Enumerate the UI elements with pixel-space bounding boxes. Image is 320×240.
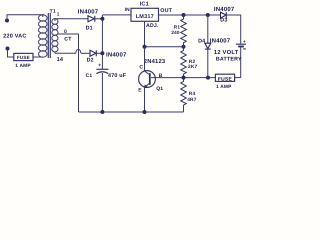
node [182, 76, 186, 80]
node [206, 13, 210, 17]
svg-text:ADJ.: ADJ. [146, 23, 159, 29]
diode D1 [78, 9, 103, 32]
wire [33, 56, 43, 58]
svg-text:1 AMP: 1 AMP [216, 84, 232, 90]
capacitor C1 [86, 63, 127, 112]
node [143, 110, 147, 114]
svg-text:14: 14 [57, 57, 64, 63]
resistor R4 [181, 78, 197, 112]
svg-text:R1: R1 [174, 25, 181, 30]
secondary winding [54, 19, 56, 21]
svg-text:E: E [138, 87, 142, 93]
svg-text:C: C [139, 64, 143, 70]
svg-text:Q1: Q1 [156, 86, 163, 92]
wire: secondary top to D1 [55, 18, 88, 20]
wire: OUT rail [159, 14, 221, 16]
svg-text:FUSE: FUSE [218, 76, 233, 82]
wire: bottom rail [79, 111, 184, 113]
resistor R1 [171, 15, 186, 47]
svg-text:12 VOLT: 12 VOLT [214, 49, 239, 56]
svg-text:2K7: 2K7 [188, 64, 198, 70]
node [100, 110, 104, 114]
wire [7, 15, 44, 21]
wire: base [151, 77, 215, 79]
svg-text:220 VAC: 220 VAC [3, 34, 26, 40]
svg-text:IN4007: IN4007 [106, 51, 127, 58]
diode D2 [87, 50, 127, 63]
node [100, 51, 104, 55]
svg-text:IN4007: IN4007 [210, 37, 231, 44]
node column: rectifier output [101, 15, 103, 69]
svg-text:IN4007: IN4007 [214, 6, 235, 13]
svg-text:D4: D4 [198, 38, 205, 44]
wire: CT tap [58, 33, 79, 35]
svg-text:1: 1 [57, 12, 60, 17]
svg-text:IN: IN [125, 7, 131, 13]
transformer T1 [39, 8, 60, 58]
node [182, 13, 186, 17]
svg-text:240: 240 [171, 30, 180, 35]
svg-text:LM317: LM317 [136, 14, 154, 20]
svg-text:D2: D2 [87, 57, 94, 63]
primary winding [42, 15, 44, 17]
wire: ADJ [145, 21, 184, 46]
node [182, 45, 186, 49]
core [47, 13, 49, 58]
node [206, 76, 210, 80]
diode D4 [198, 15, 231, 78]
svg-text:CT: CT [64, 36, 72, 42]
wire to LM317 IN [102, 14, 131, 16]
fuse F1 [14, 53, 33, 60]
svg-text:BATTERY: BATTERY [216, 56, 242, 62]
svg-text:D1: D1 [86, 26, 93, 32]
wire [8, 49, 14, 58]
wire: secondary bottom to D2, hop over CT wire [55, 52, 76, 54]
diode D3 [214, 6, 241, 44]
node: AC input top terminal [5, 19, 9, 23]
svg-text:C1: C1 [86, 73, 93, 79]
regulator IC1 LM317 [125, 2, 173, 29]
node [143, 45, 147, 49]
svg-text:2N4123: 2N4123 [144, 58, 166, 65]
svg-text:IC1: IC1 [140, 2, 149, 8]
svg-text:1 AMP: 1 AMP [15, 63, 31, 69]
svg-text:4R7: 4R7 [187, 97, 197, 103]
battery B1 [214, 40, 246, 78]
svg-text:D3: D3 [220, 18, 227, 24]
svg-text:FUSE: FUSE [17, 55, 30, 60]
node: AC input bottom terminal [6, 47, 10, 51]
svg-text:OUT: OUT [160, 8, 172, 14]
transistor Q1 [138, 47, 166, 112]
svg-text:IN4007: IN4007 [78, 9, 99, 16]
resistor R2 [181, 47, 198, 78]
svg-text:470 uF: 470 uF [108, 73, 127, 79]
svg-text:+: + [98, 63, 101, 69]
fuse F2 [215, 74, 240, 90]
svg-text:R4: R4 [189, 91, 196, 97]
node [100, 17, 104, 21]
